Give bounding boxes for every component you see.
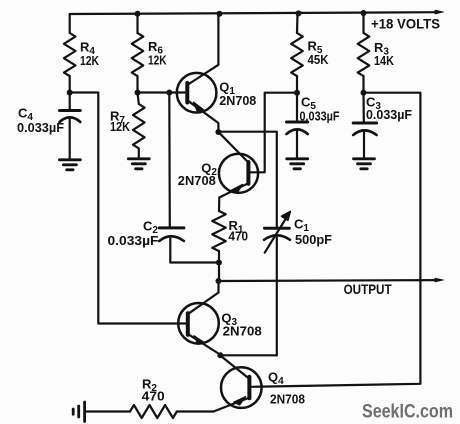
wire OUTPUT line xyxy=(219,279,439,282)
wire node A (R4/C4) to Q3 base xyxy=(70,93,188,324)
transistor Q3 xyxy=(178,281,220,355)
Q2 emitter xyxy=(219,183,248,197)
resistor R6 xyxy=(132,33,144,76)
resistor R3 xyxy=(358,33,370,76)
wire R6 top lead xyxy=(136,14,138,33)
resistor R5 xyxy=(291,33,303,76)
wire R3 bottom lead xyxy=(362,76,364,93)
svg-text:45K: 45K xyxy=(308,52,330,67)
wire R4 bottom lead xyxy=(69,76,71,93)
wire R6 bottom lead xyxy=(136,76,138,93)
Q2 collector xyxy=(219,132,249,162)
wire Q2 emitter to R1 xyxy=(218,198,221,212)
svg-text:12K: 12K xyxy=(110,119,131,134)
Q1 emitter xyxy=(188,101,218,132)
svg-text:2N708: 2N708 xyxy=(223,324,262,339)
svg-text:12K: 12K xyxy=(80,53,99,68)
wire R5 bottom lead xyxy=(296,76,298,93)
wire R4 top lead from rail xyxy=(69,14,71,33)
capacitor C4 xyxy=(60,93,81,159)
wire node B down to C2 xyxy=(168,93,171,228)
capacitor C2 xyxy=(159,228,218,263)
ground (R7) xyxy=(128,159,149,169)
transistor Q4 xyxy=(214,356,262,412)
ground (C4) xyxy=(59,160,80,170)
wire R1 bottom leads xyxy=(218,251,220,281)
capacitor C5 xyxy=(287,93,308,158)
svg-text:2N708: 2N708 xyxy=(270,392,305,407)
svg-text:470: 470 xyxy=(142,388,165,403)
resistor R2 xyxy=(130,405,177,418)
ground (C5) xyxy=(287,159,308,169)
svg-text:2N708: 2N708 xyxy=(219,93,256,108)
transistor Q2 xyxy=(219,132,259,197)
wire R2 to Q4 emitter xyxy=(177,410,214,412)
ground (rotated, bottom left) xyxy=(73,402,84,422)
wire node B (R6/R7) to Q1 base xyxy=(138,91,188,93)
wire R5 top lead xyxy=(296,14,299,33)
svg-text:14K: 14K xyxy=(374,53,395,68)
capacitor C1 (variable) xyxy=(264,211,290,355)
wire ground to R2 xyxy=(86,410,131,412)
capacitor C3 xyxy=(353,93,376,158)
node dots xyxy=(67,10,367,358)
svg-text:+18 VOLTS: +18 VOLTS xyxy=(371,17,440,32)
svg-text:0.033µF: 0.033µF xyxy=(300,109,340,124)
ground (C3) xyxy=(354,159,375,169)
wire Q1 emitter node to C1 top xyxy=(218,132,276,227)
svg-text:0.033µF: 0.033µF xyxy=(108,233,159,248)
Q4 emitter xyxy=(214,398,250,412)
wire node D (R3/C3) to Q4 base xyxy=(249,93,420,387)
svg-text:12K: 12K xyxy=(148,53,167,68)
svg-text:470: 470 xyxy=(229,229,249,244)
svg-text:SeekIC.com: SeekIC.com xyxy=(362,401,453,423)
resistor R1 xyxy=(212,211,226,251)
Q4 collector xyxy=(220,356,249,379)
resistor R4 xyxy=(64,33,76,76)
wire node C (R5/C5) to Q2 base xyxy=(248,93,297,173)
svg-text:OUTPUT: OUTPUT xyxy=(344,281,392,297)
Q3 emitter xyxy=(188,334,220,355)
wire Q3 emitter node to C1 bottom xyxy=(220,354,276,356)
svg-text:0.033µF: 0.033µF xyxy=(366,107,412,122)
wire R3 top lead xyxy=(362,14,364,33)
Q3 collector xyxy=(188,281,218,314)
transistor Q1 xyxy=(177,13,219,132)
svg-text:500pF: 500pF xyxy=(295,232,332,247)
svg-text:0.033µF: 0.033µF xyxy=(17,120,64,135)
wire +18V top rail xyxy=(70,12,438,14)
Q1 collector xyxy=(188,13,218,85)
resistor R7 xyxy=(133,93,145,158)
svg-text:2N708: 2N708 xyxy=(178,173,216,188)
